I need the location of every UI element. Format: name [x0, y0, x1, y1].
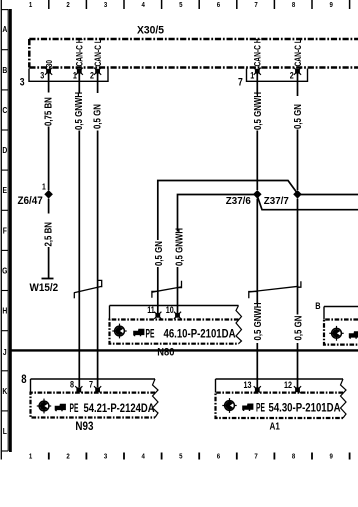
svg-text:PE: PE: [70, 402, 79, 416]
svg-text:N93: N93: [75, 420, 93, 433]
svg-text:13: 13: [244, 380, 252, 390]
svg-text:5: 5: [179, 453, 183, 461]
svg-text:0,75 BN: 0,75 BN: [42, 97, 53, 126]
svg-text:0,5 GN: 0,5 GN: [292, 104, 303, 129]
svg-text:2: 2: [66, 1, 70, 9]
svg-text:7: 7: [254, 1, 258, 9]
svg-text:F: F: [3, 226, 7, 236]
component N80 car icon: [133, 329, 144, 337]
connector 3 pin 3 square: [45, 68, 52, 75]
svg-text:9: 9: [330, 1, 334, 9]
break symbol on wires w4 w5: [152, 281, 182, 298]
wire w6 GNWH from conn7 pin1 down to Z37/6: [256, 73, 258, 190]
svg-text:L: L: [3, 426, 7, 436]
svg-text:1: 1: [29, 1, 33, 9]
wire w1 BN from pin 3 down to Z6/47: [48, 73, 50, 190]
bottom ruler ticks: [49, 453, 350, 460]
svg-text:7: 7: [89, 380, 93, 390]
svg-text:7: 7: [254, 453, 258, 461]
connector 7 pin 1 square: [254, 68, 261, 75]
svg-text:G: G: [2, 266, 7, 276]
component N93 steering wheel icon: [37, 399, 51, 414]
wire w6 from Z37/6 down to A1 pin 13: [256, 199, 258, 388]
svg-text:54.21-P-2124DA: 54.21-P-2124DA: [84, 402, 155, 415]
wire w7 GN from conn7 pin2 down to Z37/7: [297, 73, 299, 190]
svg-text:K: K: [2, 386, 7, 396]
svg-text:J: J: [3, 347, 7, 357]
component A1 pin 12 square: [294, 386, 301, 393]
component N93 pin 8 square: [75, 386, 82, 393]
component N80 dash-dot box: [110, 320, 239, 344]
connector X30/5 dashed box left: [28, 39, 31, 68]
svg-text:46.10-P-2101DA: 46.10-P-2101DA: [164, 327, 236, 340]
top ruler ticks: [49, 0, 350, 9]
svg-text:0,5 GNWH: 0,5 GNWH: [252, 302, 263, 340]
svg-text:1: 1: [250, 71, 254, 81]
branch wire from Z37/6 to lower horizontal to w5: [178, 195, 258, 232]
svg-text:Z6/47: Z6/47: [18, 195, 43, 207]
svg-text:H: H: [2, 306, 7, 316]
component N93 car icon: [55, 404, 66, 412]
svg-text:Z37/7: Z37/7: [264, 196, 289, 207]
svg-text:0,5 GNWH: 0,5 GNWH: [173, 228, 184, 266]
svg-text:2: 2: [90, 71, 94, 81]
node Z6/47 diamond: [44, 190, 53, 199]
component N93 torn right edge: [153, 379, 159, 418]
component N93 connector strip left edge: [30, 379, 32, 393]
svg-text:X30/5: X30/5: [137, 24, 164, 36]
svg-text:N80: N80: [157, 347, 174, 359]
component N93 dash-dot box: [31, 393, 156, 418]
svg-text:0,5 GN: 0,5 GN: [91, 104, 102, 129]
component A1 dash-dot box: [216, 393, 344, 418]
svg-text:A: A: [2, 24, 7, 34]
svg-text:5: 5: [179, 1, 183, 9]
connector X30/5 dashed box bottom: [29, 66, 358, 69]
svg-text:Z37/6: Z37/6: [226, 196, 251, 207]
svg-text:8: 8: [292, 1, 296, 9]
component A1 pin 13 square: [254, 386, 261, 393]
svg-text:CAN-C L: CAN-C L: [293, 39, 303, 66]
svg-text:30: 30: [44, 60, 54, 67]
svg-text:0,5 GNWH: 0,5 GNWH: [73, 92, 84, 130]
svg-text:8: 8: [70, 380, 74, 390]
bottom ruler numbers: [29, 453, 333, 461]
component N80 pin 11 square: [154, 312, 161, 319]
wire w1 BN from Z6/47 down to W15/2: [48, 199, 50, 278]
connector 3 pin 2 square: [94, 68, 101, 75]
wire w3 GN from conn3 pin2 down to N93 pin 7: [97, 73, 99, 387]
svg-text:3: 3: [20, 77, 25, 89]
component B dash-dot box: [324, 320, 358, 345]
component A1 steering wheel icon: [222, 398, 236, 413]
top ruler numbers: [29, 1, 333, 9]
svg-text:2: 2: [290, 71, 294, 81]
svg-text:54.30-P-2101DA: 54.30-P-2101DA: [269, 402, 341, 415]
heavy divider line: [10, 349, 358, 351]
wire w2 GNWH from conn3 pin1 down to N93 pin 8: [78, 73, 80, 387]
branch wire from Z37/6 exiting right: [257, 196, 358, 210]
connector 3 bracket: [29, 69, 108, 82]
component B connector strip top line: [324, 306, 358, 308]
wire w5 to N80 pin 10: [177, 267, 179, 314]
component N80 torn right edge: [236, 306, 242, 344]
node Z37/6 diamond: [253, 190, 262, 199]
svg-text:0,5 GNWH: 0,5 GNWH: [252, 92, 263, 130]
svg-text:10: 10: [166, 305, 174, 315]
wire w4 to N80 pin 11: [157, 267, 159, 314]
svg-text:PE: PE: [146, 327, 155, 341]
svg-text:2,5 BN: 2,5 BN: [42, 222, 53, 247]
svg-text:11: 11: [147, 305, 155, 315]
page frame left edge: [0, 0, 2, 460]
svg-text:3: 3: [40, 71, 44, 81]
svg-text:12: 12: [284, 380, 292, 390]
svg-text:A1: A1: [270, 421, 280, 432]
svg-text:B: B: [2, 65, 7, 75]
component N93 pin 7 square: [94, 386, 101, 393]
svg-text:D: D: [2, 145, 7, 155]
connector 7 bracket: [247, 69, 308, 82]
connector X30/5 dashed box top: [29, 38, 358, 41]
component A1 torn right edge: [341, 379, 347, 418]
branch wire from Z37/7 exiting right: [298, 194, 358, 196]
branch wire from Z37/7 to upper horizontal to w4: [158, 181, 298, 241]
component B car icon partial: [349, 331, 358, 339]
left ruler heavy line: [9, 9, 12, 452]
component B connector strip left edge: [323, 307, 325, 320]
component B steering wheel icon: [329, 326, 343, 341]
left ruler grid: [1, 9, 8, 451]
break symbol on wires w6 w7: [249, 281, 301, 298]
svg-text:1: 1: [29, 453, 33, 461]
svg-text:1: 1: [42, 182, 46, 192]
component A1 car icon: [242, 404, 253, 412]
svg-text:8: 8: [292, 453, 296, 461]
svg-text:9: 9: [330, 453, 334, 461]
node Z37/7 diamond: [293, 190, 302, 199]
svg-text:7: 7: [238, 77, 243, 89]
component A1 connector strip top line: [216, 378, 344, 380]
connector 3 pin 1 square: [76, 68, 83, 75]
left ruler letters: [2, 24, 7, 436]
svg-text:E: E: [3, 185, 8, 195]
svg-text:CAN-C H: CAN-C H: [74, 38, 84, 66]
svg-text:W15/2: W15/2: [30, 283, 59, 295]
component N80 connector strip top line: [110, 305, 239, 307]
svg-text:PE: PE: [256, 402, 265, 416]
svg-text:8: 8: [21, 373, 26, 386]
svg-text:4: 4: [142, 453, 146, 461]
svg-text:6: 6: [217, 453, 221, 461]
break symbol on wires w2 w3: [74, 280, 102, 298]
svg-text:3: 3: [104, 1, 108, 9]
component N80 steering wheel icon: [112, 324, 126, 339]
svg-text:CAN-C H: CAN-C H: [253, 38, 263, 66]
svg-text:C: C: [2, 105, 7, 115]
svg-text:0,5 GN: 0,5 GN: [292, 315, 303, 340]
component N93 connector strip top line: [31, 378, 156, 380]
svg-text:0,5 GN: 0,5 GN: [153, 241, 164, 266]
svg-text:3: 3: [104, 453, 108, 461]
svg-text:4: 4: [142, 1, 146, 9]
svg-text:1: 1: [73, 71, 77, 81]
connector 7 pin 2 square: [294, 68, 301, 75]
component N80 pin 10 square: [174, 312, 181, 319]
component N80 connector strip left edge: [109, 306, 111, 320]
svg-text:6: 6: [217, 1, 221, 9]
svg-text:B: B: [315, 302, 320, 312]
ground terminal W15/2 bar: [42, 278, 54, 280]
wire w7 from Z37/7 down to A1 pin 12: [297, 199, 299, 388]
component A1 connector strip left edge: [215, 379, 217, 393]
svg-text:2: 2: [66, 453, 70, 461]
svg-text:CAN-C L: CAN-C L: [93, 39, 103, 66]
